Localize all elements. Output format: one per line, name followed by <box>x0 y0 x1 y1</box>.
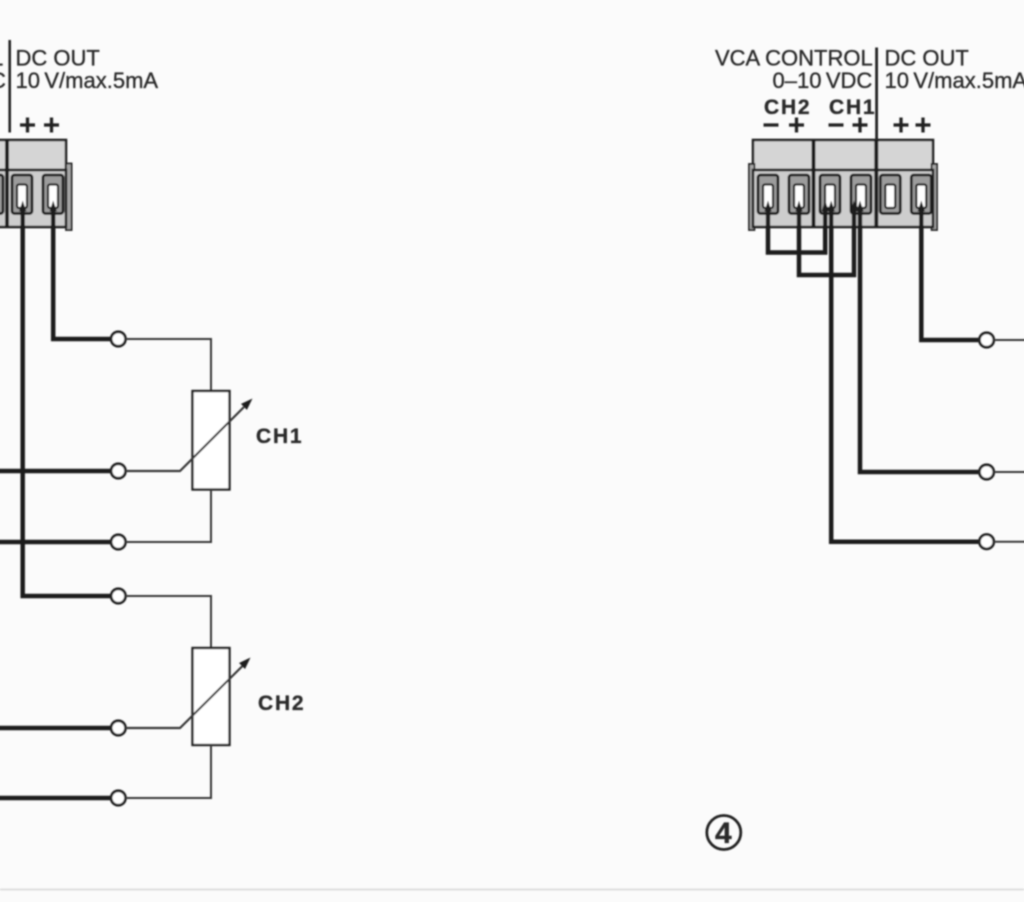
svg-text:10 V/max.5mA: 10 V/max.5mA <box>885 68 1024 93</box>
wire: from off-image left to node 6 (thick) <box>0 796 112 801</box>
wiper of CH2 (diagonal arrow) <box>125 666 243 729</box>
wire: loop T1 down, right, up into T3 (thick) <box>768 207 825 253</box>
terminal block (left) : right side flange <box>66 164 72 231</box>
svg-text:CH1: CH1 <box>256 425 303 448</box>
wire arrow tip in slot B <box>50 201 57 212</box>
polarity mark - (T1) <box>764 123 779 126</box>
wire: node 4 to top of potentiometer CH2 (thin) <box>125 596 211 648</box>
node 4 (open terminal circle) <box>111 589 125 603</box>
wire: T4 down to node B (thick) <box>860 207 979 472</box>
svg-text:4: 4 <box>715 817 732 850</box>
node 5 (open terminal circle) <box>111 721 125 735</box>
wire: node 3 to bottom of potentiometer CH1 (thin) <box>125 490 211 543</box>
wire: T6 down to node A (thick) <box>921 207 979 340</box>
wire: node 1 to top of potentiometer CH1 (thin) <box>125 339 211 391</box>
wire: from off-image left to node 5 (thick) <box>0 726 112 731</box>
terminal slot T1 (CH2 -) <box>758 175 778 214</box>
terminal block (right) : lower housing <box>753 170 933 227</box>
wire: node A to right edge (thin) <box>994 339 1024 341</box>
polarity mark + (T2) <box>789 118 804 133</box>
wire: loop T2 down, right, up into T4 (thick) <box>799 207 854 275</box>
terminal block (right) : section divider 1 <box>812 140 816 227</box>
polarity mark + (T5) <box>894 118 909 133</box>
page border bottom line <box>0 889 1024 891</box>
wire: node 6 to bottom of potentiometer CH2 (thin) <box>125 745 211 798</box>
svg-text:C: C <box>0 68 6 93</box>
terminal slot T6 (DC OUT +) <box>911 175 931 214</box>
wire arrow tip in slot T2 <box>795 201 802 212</box>
wire arrow tip in slot T3 second wire <box>828 201 835 212</box>
svg-text:DC OUT: DC OUT <box>885 46 969 71</box>
wire arrow tip loop end in slot T4 <box>850 201 857 212</box>
node B (open terminal circle) <box>979 465 993 479</box>
wire arrow tip in slot T6 <box>918 201 925 212</box>
figure number 4 (circled) <box>707 816 741 850</box>
svg-text:VCA CONTROL: VCA CONTROL <box>715 46 873 71</box>
terminal slot T3 (CH1 -) <box>820 175 840 214</box>
wire: from off-image left to node 3 (thick) <box>0 540 112 545</box>
wire: terminal B down to node 1 (thick) <box>53 207 111 339</box>
wire: T3 down to node C (thick) <box>831 207 979 542</box>
terminal block (left) : partial slot at image edge <box>0 175 3 214</box>
label divider line (right block) <box>875 48 878 141</box>
polarity mark + (left block, terminal B) <box>44 118 59 133</box>
wire arrow tip in slot T4 second wire <box>856 201 863 212</box>
wire arrow tip in slot T1 <box>764 201 771 212</box>
polarity mark - (T3) <box>829 123 844 126</box>
polarity mark + (T6) <box>916 118 931 133</box>
node A (open terminal circle) <box>979 333 993 347</box>
svg-text:DC OUT: DC OUT <box>16 46 100 71</box>
terminal block (right) : section divider 2 <box>874 140 878 227</box>
label divider line (VCA CONTROL | DC OUT) left block <box>8 40 11 133</box>
terminal slot T5 (DC OUT +) <box>880 175 900 214</box>
wire: from off-image left to node 2 (thick) <box>0 469 112 474</box>
terminal slot B (DC OUT +, left block) <box>43 175 63 214</box>
terminal block (right) : upper housing <box>753 140 933 170</box>
terminal block (left, partially cut) : upper housing <box>0 140 66 170</box>
wiper of CH1 (diagonal arrow) <box>125 407 244 471</box>
svg-text:CH2: CH2 <box>764 96 811 119</box>
terminal block (left) : section divider <box>5 140 9 227</box>
polarity mark + (T4) <box>853 118 868 133</box>
svg-text:CH1: CH1 <box>829 96 876 119</box>
wire: node B to right edge (thin) <box>994 471 1024 473</box>
node C (open terminal circle) <box>979 535 993 549</box>
node 3 (open terminal circle) <box>111 535 125 549</box>
potentiometer CH1 body <box>193 391 230 490</box>
polarity mark + (left block, terminal A) <box>20 118 35 133</box>
terminal block (right) : right side flange <box>932 164 937 230</box>
node 1 (open terminal circle) <box>111 332 125 346</box>
potentiometer CH2 body <box>193 648 230 745</box>
wire arrow tip in slot A <box>19 201 26 212</box>
node 6 (open terminal circle) <box>111 791 125 805</box>
svg-text:10 V/max.5mA: 10 V/max.5mA <box>16 68 159 93</box>
svg-text:0–10 VDC: 0–10 VDC <box>773 68 873 93</box>
terminal block (right) : left side flange <box>749 164 754 230</box>
wire arrow tip loop end in slot T3 <box>822 201 829 212</box>
wire: terminal A down to node 4 (thick) <box>23 207 112 596</box>
svg-text:CH2: CH2 <box>258 692 305 715</box>
svg-text:L: L <box>0 46 3 71</box>
terminal block (left) : lower housing <box>0 170 66 227</box>
terminal slot T4 (CH1 +) <box>851 175 871 214</box>
node 2 (open terminal circle) <box>111 464 125 478</box>
wire: node C to right edge (thin) <box>994 541 1024 543</box>
terminal slot T2 (CH2 +) <box>789 175 809 214</box>
terminal slot A (DC OUT +, left block) <box>12 175 32 214</box>
